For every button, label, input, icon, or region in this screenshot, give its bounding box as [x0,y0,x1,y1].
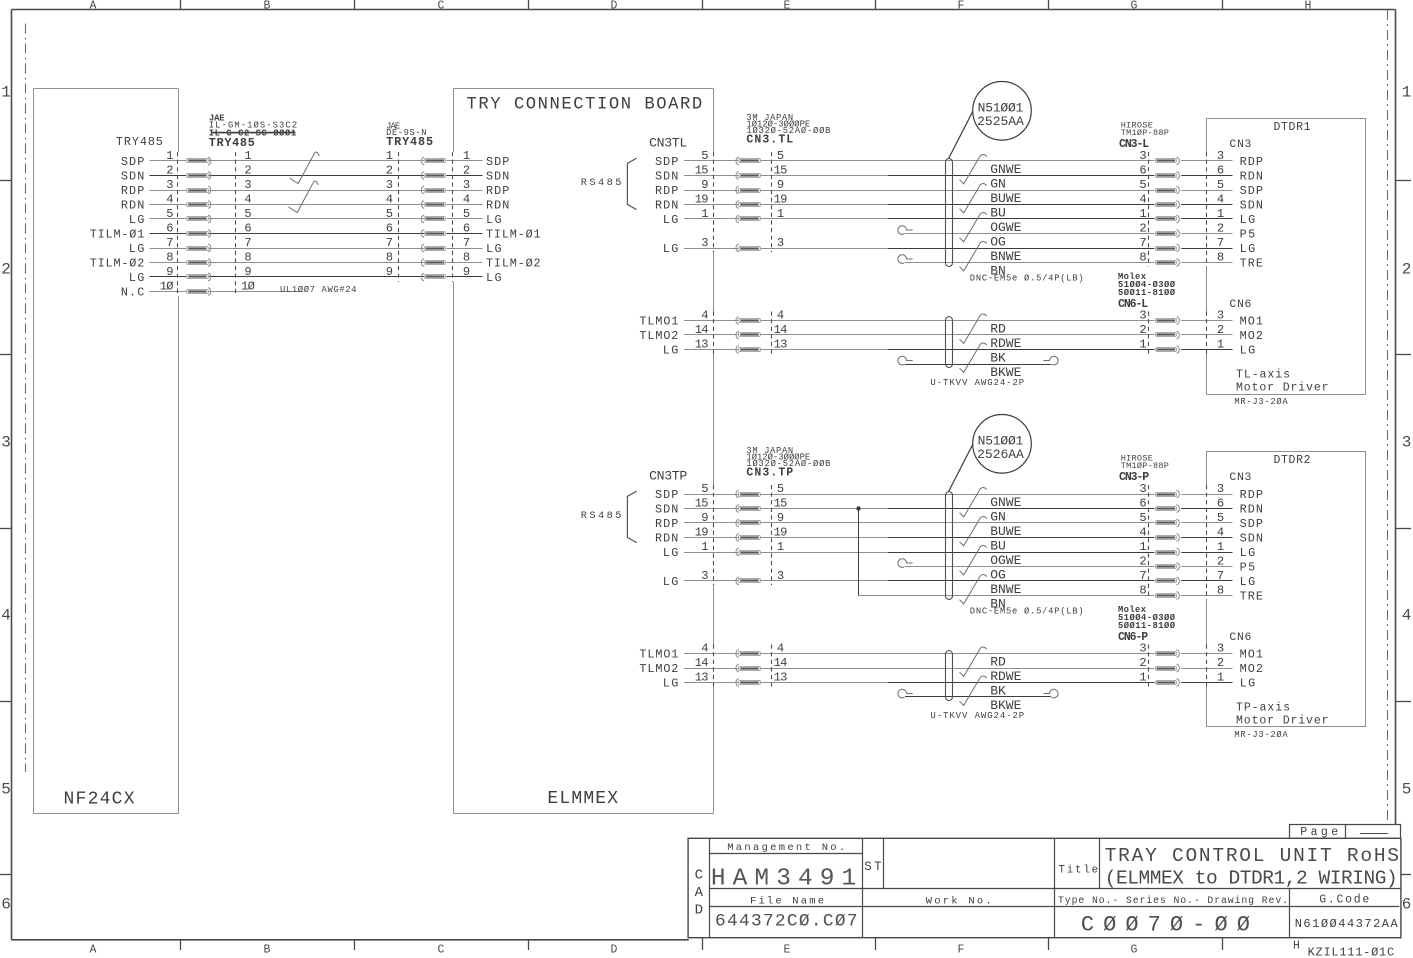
svg-text:3: 3 [1,434,11,452]
svg-text:4: 4 [701,642,708,656]
svg-text:13: 13 [695,671,709,685]
svg-text:CN3: CN3 [1229,472,1251,484]
svg-text:E: E [784,0,791,13]
svg-text:LG: LG [129,242,145,256]
svg-text:BUWE: BUWE [990,524,1021,539]
svg-text:5: 5 [244,207,251,221]
svg-text:SDP: SDP [655,155,678,169]
svg-text:1: 1 [463,149,470,163]
svg-text:N51ØØ1: N51ØØ1 [978,433,1024,448]
svg-text:2525AA: 2525AA [977,114,1024,129]
svg-text:SDP: SDP [486,155,509,169]
svg-text:RDP: RDP [655,184,678,198]
svg-text:1: 1 [1217,338,1224,352]
svg-text:CN3: CN3 [1229,139,1251,151]
svg-text:3: 3 [1217,149,1224,163]
svg-text:2: 2 [1139,555,1146,569]
svg-text:SDP: SDP [1240,184,1263,198]
svg-text:DNC-EM5e Ø.5/4P(LB): DNC-EM5e Ø.5/4P(LB) [970,274,1084,284]
svg-text:8: 8 [463,251,470,265]
svg-text:Motor Driver: Motor Driver [1236,382,1329,395]
svg-text:TILM-Ø2: TILM-Ø2 [486,257,541,271]
svg-text:3: 3 [1402,434,1412,452]
svg-text:DNC-EM5e Ø.5/4P(LB): DNC-EM5e Ø.5/4P(LB) [970,607,1084,617]
svg-text:1: 1 [244,149,251,163]
svg-text:5ØØ11-81ØØ: 5ØØ11-81ØØ [1118,288,1176,298]
svg-text:1: 1 [1139,207,1146,221]
svg-text:LG: LG [486,271,502,285]
svg-text:4: 4 [777,642,784,656]
svg-text:LG: LG [663,344,679,358]
svg-text:7: 7 [166,236,173,250]
svg-text:2526AA: 2526AA [977,447,1024,462]
svg-text:TILM-Ø1: TILM-Ø1 [90,228,145,242]
svg-text:1: 1 [166,149,173,163]
svg-text:GNWE: GNWE [990,162,1021,177]
svg-text:BNWE: BNWE [990,249,1021,264]
svg-text:5: 5 [1217,511,1224,525]
svg-text:1: 1 [1,84,11,102]
svg-text:RDN: RDN [1240,170,1263,184]
svg-text:2: 2 [1217,656,1224,670]
svg-text:OGWE: OGWE [990,553,1021,568]
svg-text:3: 3 [1139,482,1146,496]
svg-text:13: 13 [774,338,788,352]
svg-text:6: 6 [1139,497,1146,511]
svg-text:2: 2 [1139,323,1146,337]
svg-text:RD: RD [990,322,1006,337]
svg-text:TRE: TRE [1240,257,1263,271]
svg-text:D: D [611,0,618,13]
svg-text:LG: LG [129,213,145,227]
svg-text:CN3.TL: CN3.TL [746,134,793,147]
svg-text:4: 4 [386,193,393,207]
svg-text:4: 4 [1402,607,1412,625]
svg-text:A: A [90,944,97,957]
svg-text:9: 9 [463,265,470,279]
svg-text:HAM3491: HAM3491 [711,866,856,893]
svg-text:6: 6 [1402,896,1412,914]
svg-text:RS485: RS485 [581,510,622,522]
svg-text:RDWE: RDWE [990,336,1021,351]
svg-text:C: C [438,0,445,13]
svg-text:OG: OG [990,235,1006,250]
svg-text:SDN: SDN [1240,532,1263,546]
svg-text:9: 9 [166,265,173,279]
svg-text:4: 4 [701,309,708,323]
svg-text:8: 8 [1217,251,1224,265]
svg-text:LG: LG [663,677,679,691]
svg-text:A: A [90,0,97,13]
svg-text:8: 8 [1139,251,1146,265]
svg-text:2: 2 [463,164,470,178]
svg-text:644372CØ.CØ7: 644372CØ.CØ7 [715,911,858,931]
svg-text:SDN: SDN [655,503,678,517]
svg-text:4: 4 [1217,526,1224,540]
svg-text:19: 19 [695,193,709,207]
svg-text:TILM-Ø1: TILM-Ø1 [486,228,541,242]
svg-text:1: 1 [1139,540,1146,554]
svg-text:F: F [958,944,965,957]
svg-text:N51ØØ1: N51ØØ1 [978,100,1024,115]
svg-text:DTDR2: DTDR2 [1274,454,1311,467]
svg-text:E: E [784,944,791,957]
svg-text:6: 6 [1217,164,1224,178]
svg-text:3: 3 [777,236,784,250]
svg-text:SDP: SDP [121,155,144,169]
svg-text:MO2: MO2 [1240,662,1263,676]
svg-text:19: 19 [774,193,788,207]
svg-text:2: 2 [386,164,393,178]
svg-text:4: 4 [1139,193,1146,207]
svg-text:7: 7 [463,236,470,250]
svg-text:2: 2 [1402,261,1412,279]
svg-text:9: 9 [777,178,784,192]
svg-text:1: 1 [386,149,393,163]
svg-text:7: 7 [1139,236,1146,250]
svg-text:GN: GN [990,177,1006,192]
svg-text:9: 9 [701,511,708,525]
svg-text:3: 3 [777,569,784,583]
svg-text:File Name: File Name [750,895,824,907]
svg-text:1: 1 [777,540,784,554]
svg-text:6: 6 [386,222,393,236]
svg-text:TLMO2: TLMO2 [639,662,678,676]
svg-text:CN3TL: CN3TL [649,136,687,151]
svg-text:CN6-L: CN6-L [1118,298,1148,311]
svg-text:ELMMEX: ELMMEX [547,789,618,809]
svg-text:ST: ST [864,860,882,874]
svg-text:LG: LG [1240,344,1256,358]
svg-text:LG: LG [663,242,679,256]
svg-text:BNWE: BNWE [990,582,1021,597]
svg-text:8: 8 [244,251,251,265]
svg-text:BK: BK [990,351,1006,366]
svg-text:LG: LG [663,575,679,589]
svg-text:H: H [1293,940,1300,953]
svg-text:15: 15 [695,164,709,178]
svg-text:4: 4 [463,193,470,207]
svg-text:7: 7 [1217,236,1224,250]
svg-text:2: 2 [1139,656,1146,670]
svg-text:14: 14 [774,656,788,670]
svg-text:2: 2 [244,164,251,178]
svg-text:9: 9 [244,265,251,279]
svg-text:1Ø: 1Ø [160,280,174,294]
svg-text:1: 1 [1402,84,1412,102]
svg-text:15: 15 [695,497,709,511]
svg-text:TRAY CONTROL UNIT RoHS: TRAY CONTROL UNIT RoHS [1105,845,1399,867]
svg-text:LG: LG [486,213,502,227]
svg-text:G: G [1131,944,1138,957]
svg-text:TM1ØP-88P: TM1ØP-88P [1121,461,1169,471]
svg-text:TRY485: TRY485 [386,135,433,149]
svg-text:1: 1 [1139,671,1146,685]
svg-text:1: 1 [701,207,708,221]
svg-text:CN3-L: CN3-L [1119,138,1149,151]
svg-text:5: 5 [1402,781,1412,799]
svg-text:SDN: SDN [121,170,144,184]
svg-text:SDN: SDN [1240,199,1263,213]
svg-text:SDN: SDN [486,170,509,184]
svg-text:1: 1 [1217,207,1224,221]
svg-text:4: 4 [166,193,173,207]
svg-text:15: 15 [774,497,788,511]
svg-text:5: 5 [166,207,173,221]
svg-text:3: 3 [1139,149,1146,163]
svg-text:19: 19 [695,526,709,540]
svg-text:2: 2 [1,261,11,279]
svg-text:TLMO1: TLMO1 [639,315,678,329]
svg-text:MR-J3-2ØA: MR-J3-2ØA [1234,397,1288,407]
svg-text:13: 13 [774,671,788,685]
svg-text:6: 6 [1,896,11,914]
svg-text:1: 1 [1139,338,1146,352]
svg-text:BU: BU [990,206,1006,221]
svg-text:CN3.TP: CN3.TP [746,467,793,480]
svg-text:5: 5 [1139,178,1146,192]
svg-text:RDP: RDP [1240,488,1263,502]
svg-text:RDWE: RDWE [990,669,1021,684]
svg-text:DTDR1: DTDR1 [1274,121,1311,134]
svg-text:6: 6 [463,222,470,236]
svg-text:TRY485: TRY485 [116,135,163,149]
svg-text:4: 4 [777,309,784,323]
svg-text:LG: LG [663,213,679,227]
svg-text:B: B [264,0,271,13]
svg-text:8: 8 [1139,584,1146,598]
svg-text:5: 5 [777,482,784,496]
svg-text:LG: LG [1240,575,1256,589]
svg-text:RDP: RDP [121,184,144,198]
svg-text:BUWE: BUWE [990,191,1021,206]
svg-text:1: 1 [777,207,784,221]
svg-text:RD: RD [990,655,1006,670]
svg-text:3: 3 [701,236,708,250]
svg-text:1: 1 [1217,540,1224,554]
svg-text:F: F [958,0,965,13]
svg-text:4: 4 [1,607,11,625]
svg-text:6: 6 [166,222,173,236]
svg-text:2: 2 [1217,323,1224,337]
svg-text:RDN: RDN [1240,503,1263,517]
svg-text:14: 14 [695,323,709,337]
svg-text:SDP: SDP [1240,517,1263,531]
svg-text:KZIL111-Ø1C: KZIL111-Ø1C [1308,946,1395,958]
svg-text:RDP: RDP [655,517,678,531]
svg-text:D: D [695,903,703,919]
svg-text:2: 2 [1139,222,1146,236]
svg-text:MO1: MO1 [1240,648,1263,662]
svg-text:GN: GN [990,510,1006,525]
svg-text:7: 7 [1217,569,1224,583]
svg-text:8: 8 [166,251,173,265]
svg-text:5ØØ11-81ØØ: 5ØØ11-81ØØ [1118,621,1176,631]
svg-text:5: 5 [463,207,470,221]
svg-text:LG: LG [1240,213,1256,227]
svg-text:TLMO2: TLMO2 [639,329,678,343]
svg-text:6: 6 [1139,164,1146,178]
svg-text:1Ø: 1Ø [241,280,255,294]
svg-text:5: 5 [1139,511,1146,525]
svg-text:19: 19 [774,526,788,540]
svg-text:TL-axis: TL-axis [1236,369,1290,382]
svg-text:RDP: RDP [1240,155,1263,169]
svg-text:LG: LG [129,271,145,285]
svg-text:4: 4 [1139,526,1146,540]
svg-text:3: 3 [463,178,470,192]
svg-text:4: 4 [1217,193,1224,207]
svg-text:C: C [438,944,445,957]
svg-text:LG: LG [486,242,502,256]
svg-text:(ELMMEX to DTDR1,2 WIRING): (ELMMEX to DTDR1,2 WIRING) [1105,868,1398,890]
svg-text:BK: BK [990,684,1006,699]
svg-text:OGWE: OGWE [990,220,1021,235]
svg-text:B: B [264,944,271,957]
svg-text:9: 9 [386,265,393,279]
svg-text:RDN: RDN [121,199,144,213]
svg-text:N.C: N.C [121,286,144,300]
svg-text:9: 9 [777,511,784,525]
svg-text:5: 5 [777,149,784,163]
svg-text:3: 3 [166,178,173,192]
svg-text:SDP: SDP [655,488,678,502]
svg-text:UL1ØØ7 AWG#24: UL1ØØ7 AWG#24 [280,285,357,295]
svg-text:6: 6 [1217,497,1224,511]
svg-text:RDN: RDN [655,532,678,546]
svg-text:OG: OG [990,568,1006,583]
svg-text:C: C [695,868,703,884]
svg-text:CN6-P: CN6-P [1118,631,1148,644]
svg-text:P5: P5 [1240,228,1256,242]
svg-text:3: 3 [1217,309,1224,323]
svg-text:RDN: RDN [655,199,678,213]
svg-text:BU: BU [990,539,1006,554]
svg-text:D: D [611,944,618,957]
svg-text:CN3TP: CN3TP [649,469,687,484]
svg-text:13: 13 [695,338,709,352]
svg-text:N61ØØ44372AA: N61ØØ44372AA [1295,917,1399,931]
svg-text:Motor Driver: Motor Driver [1236,715,1329,728]
svg-text:TP-axis: TP-axis [1236,702,1290,715]
svg-text:5: 5 [701,482,708,496]
svg-text:TRE: TRE [1240,590,1263,604]
svg-text:5: 5 [1,781,11,799]
svg-text:U-TKVV AWG24-2P: U-TKVV AWG24-2P [930,711,1024,721]
svg-text:Title: Title [1059,864,1099,876]
svg-text:RS485: RS485 [581,177,622,189]
svg-text:GNWE: GNWE [990,495,1021,510]
svg-text:TLMO1: TLMO1 [639,648,678,662]
svg-text:CN6: CN6 [1229,632,1251,644]
svg-text:U-TKVV AWG24-2P: U-TKVV AWG24-2P [930,378,1024,388]
svg-text:7: 7 [386,236,393,250]
svg-text:1: 1 [701,540,708,554]
svg-text:P5: P5 [1240,561,1256,575]
svg-text:2: 2 [1217,222,1224,236]
svg-text:3: 3 [244,178,251,192]
svg-text:5: 5 [386,207,393,221]
svg-text:4: 4 [244,193,251,207]
svg-text:G: G [1131,0,1138,13]
svg-text:6: 6 [244,222,251,236]
svg-text:NF24CX: NF24CX [64,790,135,810]
svg-text:7: 7 [244,236,251,250]
svg-text:MR-J3-2ØA: MR-J3-2ØA [1234,730,1288,740]
svg-text:3: 3 [1217,482,1224,496]
svg-text:RDP: RDP [486,184,509,198]
svg-text:RDN: RDN [486,199,509,213]
svg-text:H: H [1305,0,1312,13]
svg-text:14: 14 [774,323,788,337]
svg-text:CN6: CN6 [1229,299,1251,311]
svg-text:5: 5 [701,149,708,163]
svg-text:MO2: MO2 [1240,329,1263,343]
svg-text:LG: LG [1240,546,1256,560]
svg-text:3: 3 [386,178,393,192]
svg-text:CN3-P: CN3-P [1119,471,1149,484]
svg-text:MO1: MO1 [1240,315,1263,329]
svg-text:A: A [695,885,704,901]
svg-text:9: 9 [701,178,708,192]
svg-text:15: 15 [774,164,788,178]
svg-text:1: 1 [1217,671,1224,685]
svg-text:3: 3 [701,569,708,583]
svg-text:7: 7 [1139,569,1146,583]
svg-text:TRY485: TRY485 [209,136,255,150]
svg-text:SDN: SDN [655,170,678,184]
svg-text:LG: LG [663,546,679,560]
svg-text:2: 2 [166,164,173,178]
svg-text:LG: LG [1240,242,1256,256]
svg-text:TILM-Ø2: TILM-Ø2 [90,257,145,271]
svg-text:5: 5 [1217,178,1224,192]
svg-text:3: 3 [1217,642,1224,656]
svg-text:14: 14 [695,656,709,670]
svg-text:8: 8 [1217,584,1224,598]
svg-text:2: 2 [1217,555,1224,569]
svg-text:8: 8 [386,251,393,265]
svg-text:TM1ØP-88P: TM1ØP-88P [1121,128,1169,138]
svg-text:Type No.- Series No.- Drawing: Type No.- Series No.- Drawing Rev. [1058,895,1288,906]
svg-text:LG: LG [1240,677,1256,691]
